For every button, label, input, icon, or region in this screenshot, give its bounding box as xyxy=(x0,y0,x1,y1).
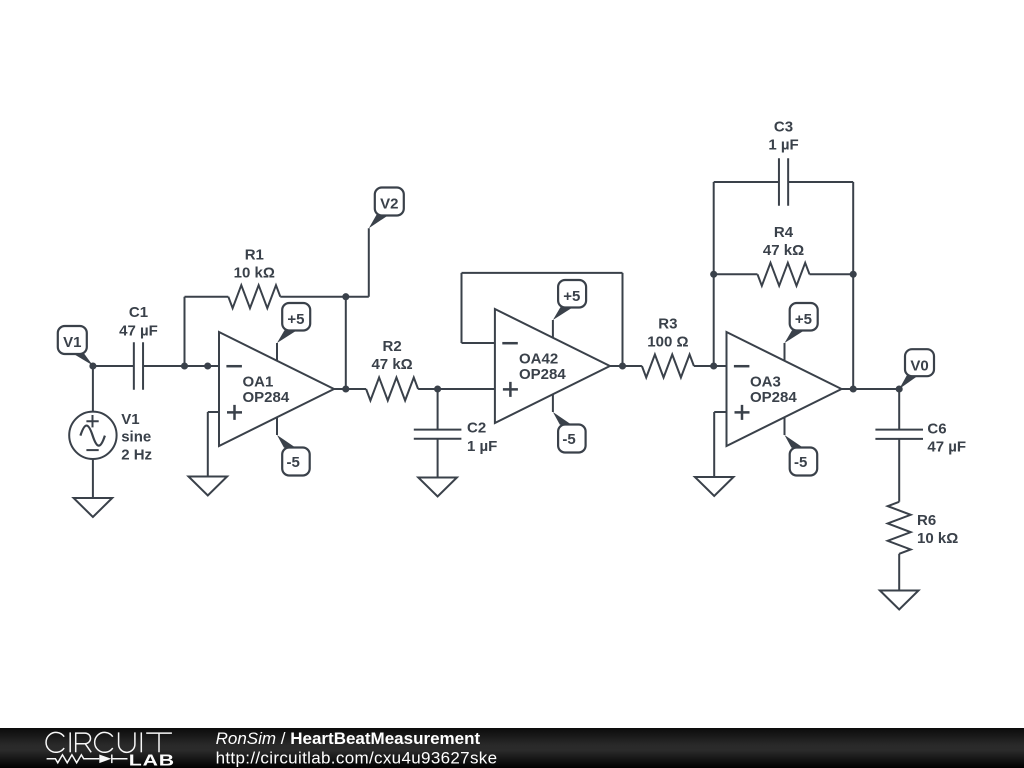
svg-text:V1: V1 xyxy=(121,411,139,428)
svg-text:C6: C6 xyxy=(927,420,946,437)
svg-text:10 kΩ: 10 kΩ xyxy=(917,530,958,547)
svg-text:100 Ω: 100 Ω xyxy=(647,334,688,351)
svg-text:R1: R1 xyxy=(245,246,264,263)
svg-text:47 kΩ: 47 kΩ xyxy=(763,242,804,259)
svg-text:C3: C3 xyxy=(774,119,793,136)
svg-text:OA3: OA3 xyxy=(750,373,781,390)
svg-text:R6: R6 xyxy=(917,512,936,529)
svg-text:OA42: OA42 xyxy=(519,350,558,367)
svg-text:1 µF: 1 µF xyxy=(467,438,497,455)
svg-text:OP284: OP284 xyxy=(243,389,290,406)
svg-text:R4: R4 xyxy=(774,224,794,241)
svg-text:V2: V2 xyxy=(380,196,398,213)
svg-text:OP284: OP284 xyxy=(750,389,797,406)
svg-text:sine: sine xyxy=(121,428,151,445)
svg-text:OA1: OA1 xyxy=(243,373,274,390)
svg-text:http://circuitlab.com/cxu4u936: http://circuitlab.com/cxu4u93627ske xyxy=(216,748,498,767)
svg-text:V0: V0 xyxy=(910,357,928,374)
svg-text:47 µF: 47 µF xyxy=(119,323,158,340)
svg-text:47 kΩ: 47 kΩ xyxy=(371,356,412,373)
svg-text:2 Hz: 2 Hz xyxy=(121,447,152,464)
svg-text:V1: V1 xyxy=(63,334,81,351)
svg-text:C2: C2 xyxy=(467,420,486,437)
svg-text:R3: R3 xyxy=(658,316,677,333)
svg-text:RonSim / HeartBeatMeasurement: RonSim / HeartBeatMeasurement xyxy=(216,729,481,748)
svg-text:10 kΩ: 10 kΩ xyxy=(234,264,275,281)
svg-text:LAB: LAB xyxy=(129,751,175,768)
svg-text:C1: C1 xyxy=(129,304,148,321)
svg-text:1 µF: 1 µF xyxy=(768,137,798,154)
svg-text:47 µF: 47 µF xyxy=(927,438,966,455)
svg-text:R2: R2 xyxy=(383,338,402,355)
svg-text:OP284: OP284 xyxy=(519,366,566,383)
